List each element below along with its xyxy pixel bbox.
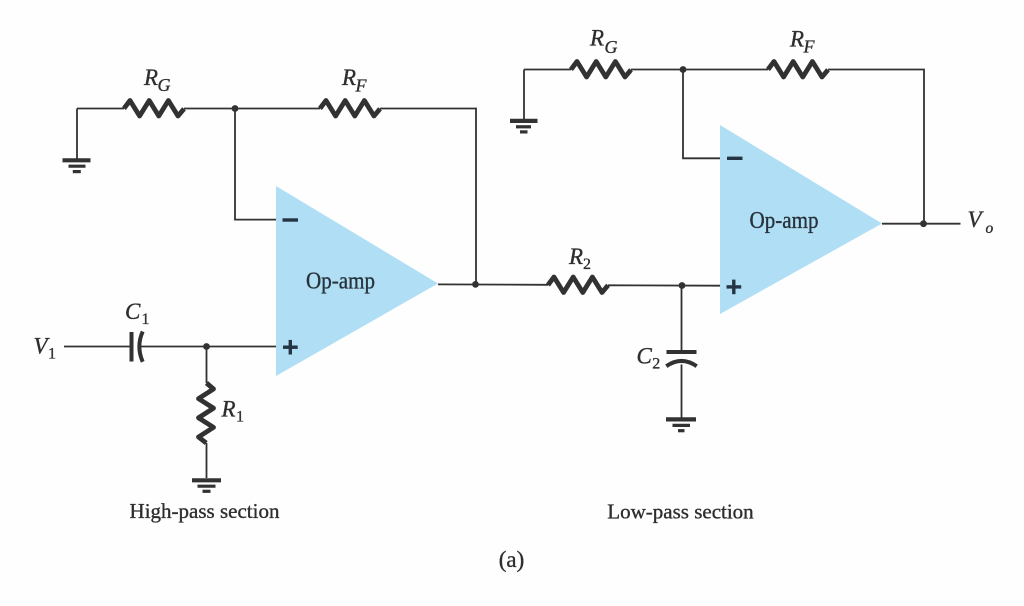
wire: ground drop from top rail 2	[523, 70, 525, 121]
svg-text:R: R	[341, 65, 356, 90]
node: C2 junction (dot)	[679, 282, 686, 289]
wire: R2 to non-inverting input of U2	[608, 284, 720, 286]
wire: junction down and into inverting input	[235, 109, 276, 220]
capacitor C2	[666, 352, 696, 366]
svg-text:F: F	[803, 37, 816, 57]
svg-text:1: 1	[236, 409, 244, 426]
node: inverting feedback junction (dot)	[232, 105, 239, 112]
node: inverting feedback junction 2 (dot)	[680, 66, 687, 73]
svg-text:C: C	[125, 299, 141, 324]
node: R1 junction (dot)	[203, 343, 210, 350]
wire: RG1 to RF1 top rail	[184, 108, 320, 110]
plus sign (U2 non-inverting input)	[727, 280, 742, 295]
node: output junction of U1 (dot)	[472, 281, 479, 288]
wire: RF2 to right corner and down to output	[828, 70, 924, 224]
svg-text:1: 1	[142, 311, 150, 328]
wire: RF1 to right corner and down to output	[380, 109, 476, 285]
svg-text:G: G	[158, 75, 171, 95]
svg-text:C: C	[637, 344, 653, 369]
wire: junction down to R1	[206, 347, 208, 384]
wire: junction 2 down and into inverting input	[683, 70, 720, 159]
ground (below R1)	[192, 480, 221, 491]
svg-text:R: R	[789, 27, 804, 52]
ground (left of RG2)	[510, 121, 538, 132]
resistor RF (low-pass)	[768, 62, 828, 78]
node: output junction of U2 (dot)	[920, 220, 927, 227]
wire: V1 input to C1	[64, 346, 130, 348]
ground (below C2)	[666, 419, 696, 430]
svg-text:o: o	[986, 220, 994, 237]
svg-text:R: R	[568, 244, 583, 269]
wire: U2 output to Vo	[882, 223, 961, 225]
wire: top rail left of RG2	[524, 69, 571, 71]
resistor R1	[199, 383, 214, 443]
svg-text:V: V	[968, 207, 985, 232]
svg-text:Low-pass section: Low-pass section	[607, 500, 754, 524]
minus sign (U2 inverting input)	[727, 157, 743, 160]
svg-text:(a): (a)	[499, 547, 525, 572]
op-amp U2 (low-pass)	[720, 125, 882, 314]
wire: RG2 to RF2 top rail	[631, 69, 768, 71]
svg-text:R: R	[143, 65, 158, 90]
resistor R2	[548, 277, 608, 293]
ground (left of RG1)	[63, 160, 91, 171]
plus sign (U1 non-inverting input)	[283, 340, 298, 355]
minus sign (U1 inverting input)	[283, 218, 299, 221]
resistor RF (high-pass)	[320, 101, 380, 117]
resistor RG (low-pass)	[571, 62, 631, 78]
svg-text:1: 1	[48, 346, 56, 363]
capacitor C1	[132, 332, 143, 362]
svg-text:R: R	[221, 397, 236, 422]
svg-text:Op-amp: Op-amp	[750, 208, 819, 234]
svg-text:G: G	[605, 37, 618, 57]
wire: C2 to ground	[681, 365, 683, 418]
svg-text:R: R	[589, 26, 604, 51]
wire: top rail left of RG1	[77, 108, 124, 110]
wire: ground drop from top rail	[76, 109, 78, 160]
wire: junction down to C2	[681, 286, 683, 351]
op-amp U1 (high-pass)	[276, 186, 438, 376]
wire: U1 output to R2	[438, 283, 548, 285]
wire: C1 to non-inverting input	[141, 346, 276, 348]
resistor RG (high-pass)	[124, 101, 184, 117]
svg-text:2: 2	[652, 356, 660, 373]
svg-text:High-pass section: High-pass section	[130, 499, 280, 523]
svg-text:F: F	[355, 76, 368, 96]
wire: R1 to ground	[206, 443, 208, 478]
svg-text:2: 2	[583, 256, 591, 273]
svg-text:Op-amp: Op-amp	[306, 268, 375, 294]
